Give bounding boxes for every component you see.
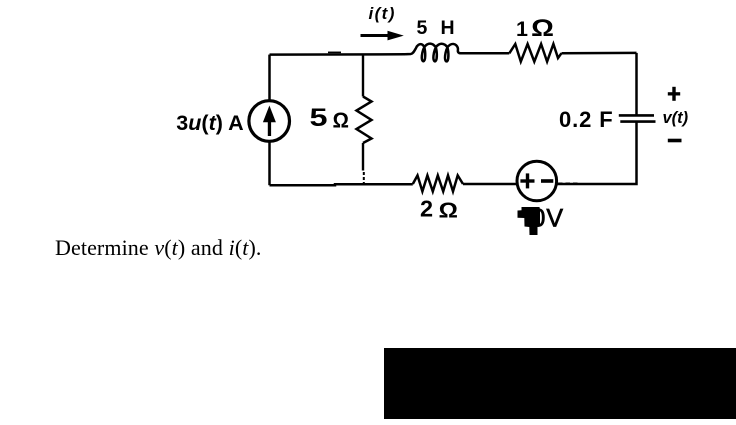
- arrow for current i(t): [361, 31, 404, 41]
- wire: right vertical upper, corner to capacitor: [635, 53, 638, 115]
- label minus polarity of v(t): [668, 139, 682, 143]
- wire: top-left horizontal segment: [270, 53, 406, 56]
- wire: right vertical lower, capacitor to bottom-right corner: [558, 122, 637, 184]
- wire: 1-ohm to top-right corner: [562, 52, 637, 55]
- minus sign inside voltage source V1: [541, 179, 553, 183]
- inductor L1 5H coil: [405, 44, 466, 62]
- arrow inside current source I1: [263, 106, 276, 137]
- svg-text:Ω: Ω: [439, 198, 459, 222]
- censored ink blob over the 1 and 0 of 10V: [518, 207, 541, 235]
- wire: dash artifacts right of voltage source: [558, 182, 579, 184]
- resistor R2 2-ohm zigzag: [413, 175, 463, 191]
- current source I1 circle: [249, 101, 290, 142]
- svg-text:Ω: Ω: [531, 15, 554, 42]
- wire: voltage source to 2-ohm resistor: [463, 183, 517, 186]
- svg-text:H: H: [441, 17, 455, 39]
- wire: 5-ohm branch upper lead from node A: [362, 54, 364, 96]
- svg-text:1: 1: [516, 17, 528, 41]
- capacitor C1 top plate: [619, 114, 654, 117]
- svg-text:0.2 F: 0.2 F: [559, 107, 614, 132]
- label + polarity of v(t): [668, 87, 680, 101]
- voltage source V1 circle: [517, 161, 557, 201]
- svg-text:i(t): i(t): [369, 4, 396, 23]
- svg-text:2: 2: [420, 196, 433, 222]
- wire: left vertical lower lead of current source: [268, 142, 271, 186]
- wire: 2-ohm to bottom-left corner: [270, 184, 413, 185]
- svg-text:5: 5: [417, 17, 428, 39]
- problem statement text: [55, 235, 262, 261]
- wire: tick artifact above top wire: [328, 51, 341, 53]
- svg-text:5: 5: [310, 104, 328, 132]
- censored black rectangle: [384, 348, 736, 419]
- capacitor C1 bottom plate: [620, 120, 655, 123]
- resistor R3 5-ohm vertical zigzag: [357, 97, 372, 144]
- wire: left vertical upper lead of current source: [268, 55, 271, 101]
- resistor R1 1-ohm zigzag: [509, 44, 561, 62]
- wire: 5-ohm branch lower lead to node B: [362, 143, 364, 171]
- svg-text:Ω: Ω: [333, 108, 350, 132]
- wire: dashed scan artifact at bottom of 5-ohm lead: [363, 172, 365, 185]
- svg-text:3u(t) A: 3u(t) A: [176, 111, 243, 135]
- + sign inside voltage source V1: [520, 173, 534, 188]
- svg-text:v(t): v(t): [663, 109, 689, 127]
- wire: inductor to 1-ohm resistor: [466, 52, 509, 55]
